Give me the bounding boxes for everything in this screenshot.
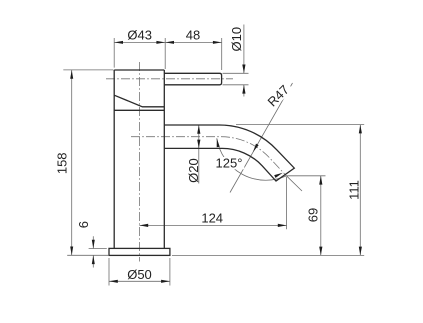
svg-text:69: 69: [305, 208, 320, 222]
svg-text:48: 48: [186, 28, 200, 43]
svg-text:158: 158: [55, 152, 70, 174]
svg-text:124: 124: [201, 211, 223, 226]
svg-text:Ø20: Ø20: [186, 158, 201, 183]
svg-text:111: 111: [346, 180, 361, 200]
svg-text:Ø10: Ø10: [229, 27, 244, 52]
svg-text:Ø43: Ø43: [127, 28, 152, 43]
svg-text:Ø50: Ø50: [127, 267, 152, 282]
svg-text:6: 6: [76, 221, 91, 228]
svg-text:125°: 125°: [216, 156, 243, 171]
